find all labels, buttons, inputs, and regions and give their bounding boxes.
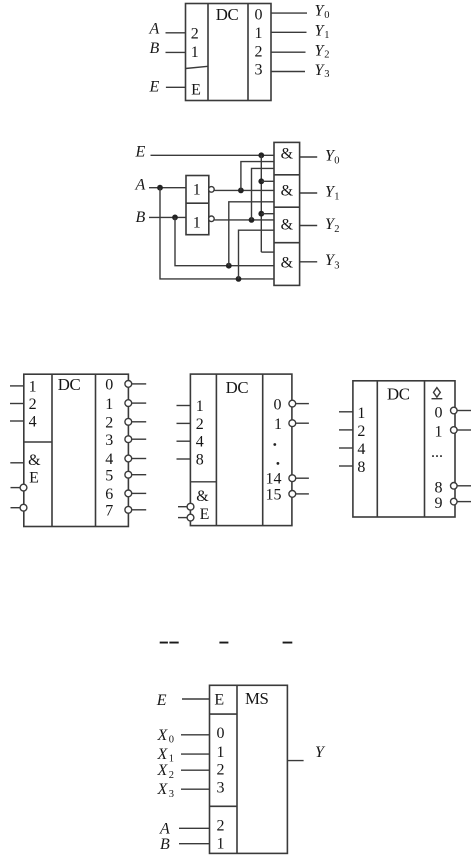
svg-text:A: A (135, 176, 146, 193)
wire B to U1 (166, 51, 186, 53)
overbar dash 1 (160, 642, 168, 644)
svg-text:2: 2 (255, 44, 263, 61)
wire A down-rail to AND Y3 (160, 188, 274, 279)
label input X0 (157, 727, 174, 746)
svg-text:8: 8 (357, 459, 365, 476)
divider AND Y1/Y2 (274, 206, 300, 208)
U2 enable separator (24, 441, 52, 443)
U2 output pin 1 (105, 396, 146, 413)
wire output Y0 (271, 12, 307, 14)
U1 left divider (207, 4, 209, 101)
wire E vertical feed (260, 155, 262, 252)
svg-text:1: 1 (255, 25, 263, 42)
junction A rail branch (236, 276, 242, 282)
overbar dash 2 (169, 642, 178, 644)
label input X2 (157, 762, 174, 781)
svg-text:&: & (281, 182, 294, 199)
decoder U1 body (186, 4, 272, 101)
wire output Y2 (271, 51, 306, 53)
inverter 2 output bubble (209, 216, 215, 222)
U1 right divider (247, 4, 249, 101)
svg-text:1: 1 (324, 30, 329, 41)
svg-text:E: E (29, 469, 39, 486)
label Y3 (315, 62, 330, 80)
wire U4 input weight 8 (339, 465, 353, 467)
U4 output pin 9 (435, 495, 472, 512)
U3 output pin 15 (266, 487, 309, 504)
U2 output pin 7 (105, 503, 146, 520)
svg-text:E: E (191, 81, 201, 98)
wire U3 input weight 2 (177, 422, 191, 424)
svg-text:2: 2 (29, 396, 37, 413)
svg-text:1: 1 (196, 398, 204, 415)
svg-text:1: 1 (193, 181, 201, 198)
svg-text:2: 2 (217, 762, 225, 779)
wire U2 enable E3 (11, 507, 21, 509)
svg-text:3: 3 (169, 789, 174, 800)
svg-text:...: ... (431, 444, 443, 461)
svg-text:0: 0 (274, 396, 282, 413)
label Y1 (315, 23, 330, 41)
svg-text:DC: DC (58, 375, 81, 394)
AND gate column body (274, 142, 300, 285)
label gate Y2 (325, 216, 340, 235)
svg-text:MS: MS (245, 689, 269, 708)
wire U4 input weight 1 (339, 411, 353, 413)
wire U2 enable E2 (11, 487, 21, 489)
svg-text:E: E (156, 692, 167, 709)
overbar dash 3 (219, 642, 228, 644)
svg-text:2: 2 (191, 25, 199, 42)
decoder U3 body (190, 374, 292, 525)
wire U2 input weight 4 (10, 420, 24, 422)
svg-text:2: 2 (334, 224, 339, 235)
wire A to U5 (179, 827, 210, 829)
wire gate output Y1 (300, 192, 318, 194)
svg-text:Y: Y (315, 744, 326, 761)
svg-text:0: 0 (105, 377, 113, 394)
U3 enable E2 bubble (187, 514, 194, 521)
wire X3 to U5 (181, 788, 210, 790)
svg-text:1: 1 (334, 192, 339, 203)
svg-text:1: 1 (105, 396, 113, 413)
wire E to AND Y0 (151, 154, 275, 156)
U4 open-collector symbol (432, 388, 443, 399)
wire output Y3 (271, 71, 305, 73)
svg-text:1: 1 (274, 416, 282, 433)
junction B (172, 215, 178, 221)
U3 left divider (215, 374, 217, 525)
U4 left divider (376, 381, 378, 517)
wire U3 enable E2 (178, 517, 187, 519)
wire gate output Y3 (300, 261, 318, 263)
svg-text:1: 1 (217, 835, 225, 852)
label gate Y3 (325, 252, 340, 271)
U3 output ellipsis dot 2 (277, 462, 280, 465)
junction E to AND Y1 (258, 178, 264, 184)
decoder U4 body (353, 381, 455, 517)
label input X3 (157, 781, 174, 800)
junction E to AND Y2 (258, 211, 264, 217)
svg-text:4: 4 (357, 441, 365, 458)
wire U2 enable E1 (active high) (10, 462, 23, 464)
U5 divider (236, 685, 238, 853)
wire B input (149, 216, 186, 218)
svg-text:0: 0 (217, 725, 225, 742)
decoder U2 body (24, 374, 129, 526)
svg-text:1: 1 (357, 405, 365, 422)
svg-text:1: 1 (169, 754, 174, 765)
junction NOT-B branch (249, 217, 255, 223)
svg-text:2: 2 (196, 416, 204, 433)
svg-text:A: A (149, 20, 160, 37)
inverter 1 output bubble (209, 187, 215, 193)
U2 output pin 0 (105, 377, 146, 394)
svg-text:1: 1 (193, 214, 201, 231)
svg-text:A: A (159, 820, 170, 837)
U3 right divider (262, 374, 264, 525)
wire gate output Y2 (300, 225, 318, 227)
svg-text:6: 6 (105, 486, 113, 503)
wire output Y1 (271, 31, 307, 33)
divider AND Y0/Y1 (274, 174, 300, 176)
U2 left divider (51, 374, 53, 526)
wire U4 input weight 2 (339, 429, 353, 431)
U2 output pin 6 (105, 486, 146, 503)
junction A (157, 185, 163, 191)
svg-text:1: 1 (191, 44, 199, 61)
svg-text:15: 15 (266, 487, 282, 504)
wire A input (149, 187, 186, 189)
wire U2 input weight 2 (10, 403, 24, 405)
U2 right divider (95, 374, 97, 526)
wire U3 enable E1 (178, 506, 187, 508)
svg-text:8: 8 (435, 479, 443, 496)
svg-text:&: & (196, 488, 209, 505)
svg-text:4: 4 (105, 451, 113, 468)
label Y0 (315, 3, 330, 21)
U2 output pin 4 (105, 451, 146, 468)
junction E branch (258, 152, 264, 158)
svg-text:&: & (281, 255, 294, 272)
junction NOT-A branch (238, 188, 244, 194)
svg-text:3: 3 (255, 61, 263, 78)
svg-text:&: & (281, 145, 294, 162)
wire U3 input weight 8 (177, 458, 191, 460)
wire E to U5 (182, 698, 210, 700)
U5 select separator (210, 805, 238, 807)
svg-text:3: 3 (324, 69, 329, 80)
svg-text:8: 8 (196, 451, 204, 468)
wire B down-rail to AND Y3 (175, 217, 274, 265)
svg-text:&: & (281, 216, 294, 233)
svg-text:0: 0 (334, 156, 339, 167)
U2 output pin 2 (105, 415, 146, 432)
wire E into AND Y1 (261, 180, 274, 182)
svg-text:B: B (136, 209, 146, 226)
wire B to U5 (179, 843, 210, 845)
svg-text:B: B (160, 836, 170, 853)
wire U3 input weight 1 (177, 405, 191, 407)
svg-text:14: 14 (266, 471, 282, 488)
svg-text:DC: DC (387, 384, 410, 403)
divider AND Y2/Y3 (274, 242, 300, 244)
wire NOT-B output to AND Y2 (214, 219, 274, 221)
U3 output pin 1 (274, 416, 309, 433)
svg-text:7: 7 (105, 503, 113, 520)
svg-text:2: 2 (357, 423, 365, 440)
wire gate output Y0 (300, 156, 318, 158)
U3 output pin 0 (274, 396, 309, 413)
wire E into AND Y3 (261, 251, 274, 253)
U4 output pin 8 (435, 479, 472, 496)
U3 enable E1 bubble (187, 503, 194, 510)
U2 enable E3 bubble (20, 504, 27, 511)
svg-text:3: 3 (105, 432, 113, 449)
U3 output ellipsis dot 1 (273, 443, 276, 446)
svg-text:3: 3 (334, 260, 339, 271)
U2 output pin 5 (105, 467, 146, 484)
svg-text:X: X (157, 781, 169, 798)
U4 right divider (424, 381, 426, 517)
svg-text:0: 0 (435, 404, 443, 421)
wire output Y (MS) (287, 760, 303, 762)
U1 enable separator (186, 66, 209, 68)
svg-text:E: E (214, 691, 224, 708)
wire X0 to U5 (181, 734, 210, 736)
svg-text:3: 3 (217, 779, 225, 796)
svg-text:0: 0 (255, 7, 263, 24)
svg-text:DC: DC (226, 378, 249, 397)
wire U2 input weight 1 (10, 385, 24, 387)
svg-text:9: 9 (435, 495, 443, 512)
svg-text:X: X (157, 762, 169, 779)
svg-text:2: 2 (217, 818, 225, 835)
multiplexer U5 body (210, 685, 288, 853)
svg-text:E: E (149, 79, 160, 96)
svg-text:1: 1 (217, 744, 225, 761)
svg-text:1: 1 (29, 378, 37, 395)
U4 output pin 1 (435, 424, 472, 441)
label gate Y0 (325, 147, 340, 166)
svg-text:X: X (157, 727, 169, 744)
svg-text:4: 4 (29, 413, 37, 430)
overbar dash 4 (283, 642, 293, 644)
svg-text:5: 5 (105, 467, 113, 484)
svg-text:E: E (135, 144, 146, 161)
svg-text:1: 1 (435, 424, 443, 441)
wire E to U1 (166, 86, 186, 88)
svg-text:B: B (150, 40, 160, 57)
wire A to U1 (166, 32, 186, 34)
U3 enable separator (190, 481, 216, 483)
wire X2 to U5 (181, 769, 210, 771)
label gate Y1 (325, 183, 340, 202)
svg-text:2: 2 (324, 50, 329, 61)
inverter block body (186, 176, 209, 235)
wire A up into AND Y2 (239, 230, 275, 279)
U2 enable E2 bubble (20, 484, 27, 491)
svg-text:0: 0 (324, 10, 329, 21)
svg-text:2: 2 (105, 415, 113, 432)
wire NOT-A up into AND Y0 (241, 162, 274, 191)
svg-text:DC: DC (216, 5, 239, 24)
svg-text:0: 0 (169, 735, 174, 746)
svg-text:2: 2 (169, 770, 174, 781)
svg-text:E: E (200, 506, 210, 523)
U2 output pin 3 (105, 432, 146, 449)
inverter divider (186, 202, 209, 204)
U3 output pin 14 (266, 471, 309, 488)
junction B rail branch (226, 263, 232, 269)
U5 enable separator (210, 713, 238, 715)
U4 output pin 0 (435, 404, 472, 421)
label Y2 (315, 42, 330, 60)
wire X1 to U5 (181, 753, 210, 755)
wire NOT-A output to AND Y1 (214, 189, 274, 191)
wire NOT-B up into AND Y0 (252, 168, 275, 220)
wire U3 input weight 4 (177, 440, 191, 442)
wire E into AND Y2 (261, 213, 274, 215)
svg-text:X: X (157, 746, 169, 763)
label input X1 (157, 746, 174, 765)
svg-text:4: 4 (196, 434, 204, 451)
svg-text:&: & (28, 452, 41, 469)
wire U4 input weight 4 (339, 447, 353, 449)
wire B up into AND Y1 (229, 202, 274, 266)
